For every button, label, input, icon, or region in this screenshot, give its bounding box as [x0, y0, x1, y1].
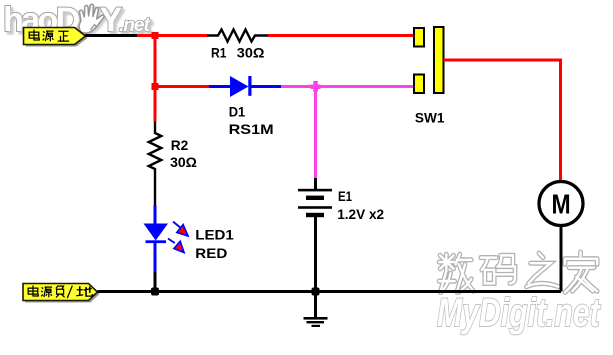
watermark 数码之家	[439, 252, 597, 292]
glyph /	[67, 286, 72, 298]
wire: red to diode	[155, 85, 209, 88]
node junction battery/rail	[312, 288, 320, 296]
node pink junction	[311, 81, 321, 92]
glyph 电	[29, 30, 39, 41]
ground	[304, 292, 328, 328]
svg-text:E1: E1	[338, 188, 352, 204]
node junction top-left	[152, 32, 159, 39]
label 电源负/地 (power negative flag)	[23, 284, 100, 303]
wire: red vertical drop	[154, 36, 157, 122]
glyph 码	[481, 255, 515, 283]
glyph 源	[41, 287, 52, 297]
wire: pink vertical to battery	[314, 87, 317, 179]
svg-text:30Ω: 30Ω	[237, 45, 265, 61]
glyph 数	[439, 254, 473, 292]
LED emission arrows	[168, 222, 188, 253]
glyph 地	[76, 286, 92, 296]
wire: black battery top stub	[314, 178, 317, 190]
battery E1	[298, 189, 332, 217]
glyph 电	[28, 286, 38, 297]
motor M1	[539, 182, 583, 226]
LED LED1	[144, 205, 189, 272]
wire: motor to ground rail	[560, 225, 563, 292]
svg-text:D1: D1	[229, 104, 246, 120]
svg-text:1.2V x2: 1.2V x2	[337, 206, 384, 222]
wire: pink diode to switch	[281, 85, 414, 88]
node junction diode row	[152, 83, 159, 90]
glyph 家	[565, 252, 597, 292]
wire: red R1 to switch	[268, 34, 414, 37]
svg-text:RS1M: RS1M	[229, 121, 274, 137]
resistor R1	[207, 30, 268, 42]
glyph 源	[43, 31, 54, 41]
svg-text:30Ω: 30Ω	[170, 154, 197, 170]
svg-text:R2: R2	[171, 137, 189, 153]
wire: ground rail	[98, 290, 562, 293]
svg-text:MyDigit.net: MyDigit.net	[437, 290, 602, 335]
glyph 之	[526, 253, 558, 287]
svg-text:R1: R1	[211, 45, 227, 61]
svg-text:M: M	[551, 189, 570, 220]
svg-text:LED1: LED1	[195, 226, 234, 242]
wire: label to node (black)	[85, 34, 137, 37]
node junction LED/rail	[151, 288, 159, 296]
wire: red switch to motor corner	[444, 60, 561, 182]
glyph 负	[56, 286, 65, 298]
svg-text:RED: RED	[195, 245, 227, 261]
svg-text:SW1: SW1	[415, 110, 445, 126]
wire: red top feed	[137, 34, 207, 37]
logo haoDIY.net	[3, 1, 150, 39]
resistor R2	[149, 122, 162, 206]
wire: LED to ground rail	[154, 272, 157, 292]
wire: battery to ground rail	[314, 217, 317, 292]
watermark MyDigit.net	[437, 290, 602, 335]
glyph 正	[58, 31, 69, 41]
svg-text:.net: .net	[119, 15, 150, 36]
diode D1	[209, 76, 281, 97]
switch SW1	[414, 27, 444, 93]
label 电源正 (power positive flag)	[24, 28, 88, 47]
